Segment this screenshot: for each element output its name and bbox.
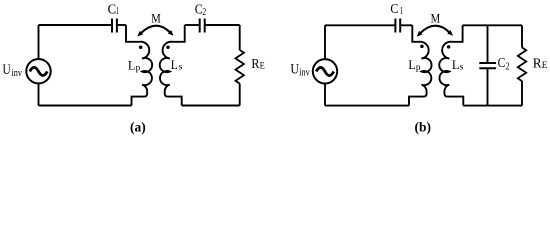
svg-text:1: 1 [116, 6, 119, 17]
svg-text:M: M [431, 10, 441, 25]
svg-text:2: 2 [202, 7, 206, 18]
svg-text:L: L [171, 57, 178, 72]
svg-text:s: s [179, 62, 183, 72]
svg-text:(b): (b) [415, 119, 432, 134]
svg-text:L: L [408, 57, 416, 72]
svg-text:E: E [542, 60, 548, 70]
svg-text:s: s [460, 62, 464, 72]
svg-text:C: C [390, 1, 398, 16]
svg-text:C: C [498, 55, 506, 70]
svg-text:L: L [128, 57, 136, 72]
svg-text:M: M [151, 11, 161, 26]
svg-text:inv: inv [299, 67, 310, 78]
svg-text:E: E [260, 61, 266, 71]
svg-text:(a): (a) [130, 119, 146, 134]
svg-text:2: 2 [506, 62, 510, 73]
svg-text:p: p [136, 63, 141, 73]
svg-text:p: p [416, 63, 421, 73]
svg-text:U: U [290, 62, 299, 78]
svg-text:L: L [452, 57, 460, 72]
svg-text:inv: inv [12, 68, 23, 79]
svg-text:1: 1 [400, 6, 403, 17]
svg-text:U: U [3, 62, 11, 78]
